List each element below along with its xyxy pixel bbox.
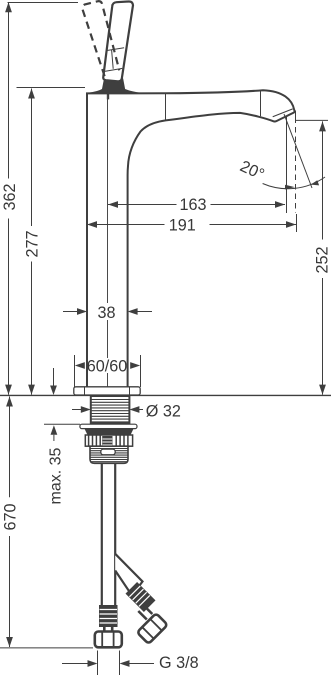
handle seam line lower xyxy=(104,68,122,71)
dimension 163 line xyxy=(108,204,177,206)
670 bottom extension line xyxy=(0,647,93,649)
right hose crimp sleeve xyxy=(126,582,156,612)
svg-text:38: 38 xyxy=(97,304,115,322)
svg-text:670: 670 xyxy=(2,503,20,530)
G3/8 extension line left xyxy=(97,651,99,675)
threaded stud center xyxy=(102,436,112,450)
left connector neck xyxy=(104,627,112,632)
left hose crimp sleeve xyxy=(99,605,118,627)
center extension line (cartridge axis) xyxy=(107,95,109,303)
right connector nut G3/8 (rotated) xyxy=(137,613,168,644)
dashed lever handle (alternate position) xyxy=(82,1,119,76)
extension line spout front (191 right reference) xyxy=(296,214,298,232)
knurled mounting nut xyxy=(85,435,132,446)
extension line at body top (277 reference) xyxy=(17,87,86,89)
handle front edge seam xyxy=(112,50,114,69)
spout seam line near tip xyxy=(260,91,262,117)
G3/8 extension line right xyxy=(119,651,121,675)
svg-text:362: 362 xyxy=(1,183,19,210)
svg-text:60/60: 60/60 xyxy=(87,357,128,375)
dimension 670 line xyxy=(9,397,11,498)
washer top extension line (max35 reference) xyxy=(44,423,80,425)
dimension G3/8 arrows xyxy=(62,663,88,665)
svg-text:G 3/8: G 3/8 xyxy=(159,654,199,672)
washer bar xyxy=(80,424,137,428)
right connector neck xyxy=(138,605,152,619)
extension line at handle top (362 reference) xyxy=(8,2,79,4)
dimension 38 arrows xyxy=(63,311,78,313)
dimension 277 line xyxy=(31,89,33,227)
svg-text:252: 252 xyxy=(313,246,331,273)
body/spout seam line xyxy=(165,93,167,120)
dimension 60/60 xyxy=(75,362,85,369)
base plate corner tick left xyxy=(84,387,86,395)
seal cone (dark) xyxy=(85,429,134,435)
dashed line from spout tip xyxy=(295,127,297,213)
svg-text:max. 35: max. 35 xyxy=(48,447,65,504)
svg-text:163: 163 xyxy=(179,196,206,214)
base plate xyxy=(74,387,140,395)
solid segment below spout tip xyxy=(295,111,297,124)
20 degree reference line xyxy=(284,114,312,188)
left connector nut G3/8 xyxy=(95,632,122,648)
solid lever handle xyxy=(103,1,133,81)
dimension Ø32 arrows xyxy=(72,409,82,411)
faucet body outline (column + spout) xyxy=(87,90,295,388)
dimension 362 line xyxy=(8,2,10,178)
supply hose vertical xyxy=(101,463,103,606)
svg-text:277: 277 xyxy=(24,230,42,257)
handle cap wings and hinge boss (dark mound on faucet top) xyxy=(88,77,141,93)
handle seam line upper xyxy=(106,48,124,51)
dimension 252 line xyxy=(322,121,324,239)
60/60 extension line right xyxy=(140,355,142,387)
supply hose diagonal xyxy=(115,554,142,596)
extension line outlet height (252 top reference) xyxy=(295,119,328,121)
max. 35 dimension (arrows outside) xyxy=(53,368,55,386)
extension line spout outlet (163 right reference) xyxy=(286,116,288,213)
60/60 extension line left xyxy=(74,355,76,387)
20 degree arc with arrows xyxy=(263,177,325,189)
svg-text:Ø 32: Ø 32 xyxy=(146,402,181,420)
threaded shank xyxy=(91,396,130,424)
counter / mounting surface line xyxy=(0,394,331,396)
dimension 191 line xyxy=(87,224,165,226)
svg-text:191: 191 xyxy=(169,216,196,234)
base plate corner tick right xyxy=(129,387,131,395)
handle pin below cap xyxy=(107,93,109,99)
spout tip aerator seam line xyxy=(273,109,293,117)
lower threaded block xyxy=(90,446,128,463)
